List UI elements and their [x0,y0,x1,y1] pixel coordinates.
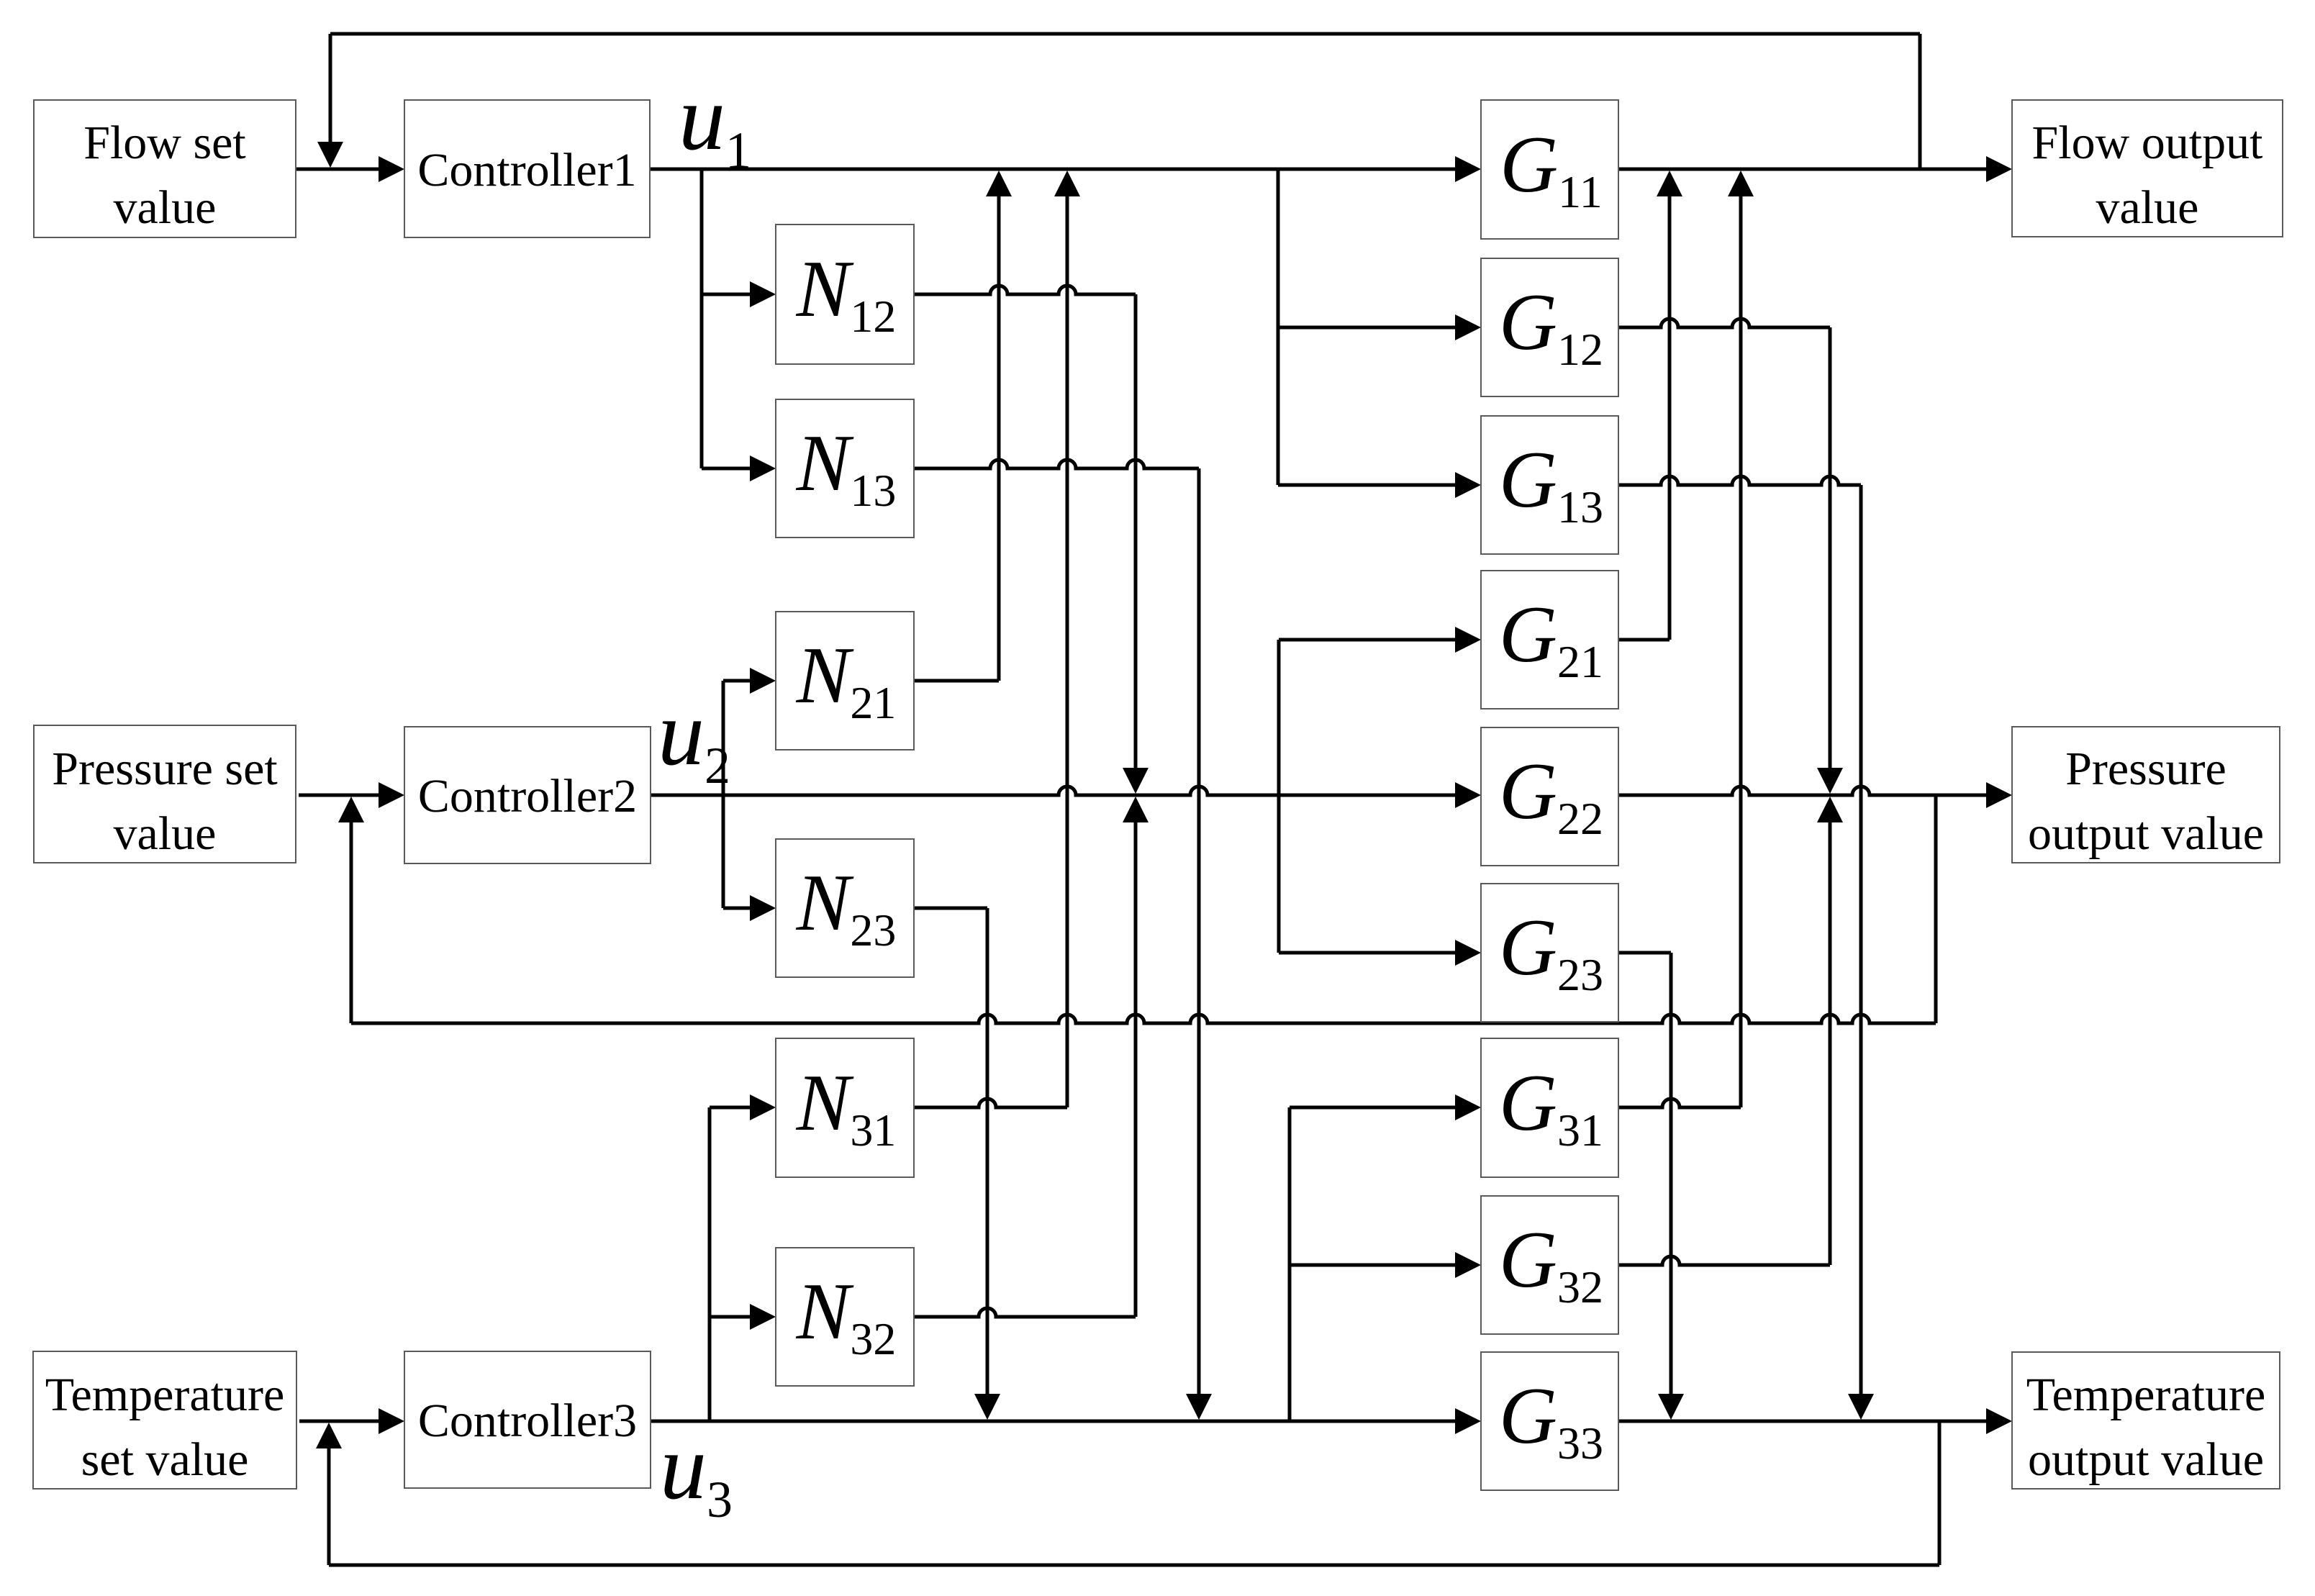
block plant G12 [1481,258,1618,396]
svg-text:value: value [114,807,217,860]
arrowhead into N12 [750,281,776,307]
wire flow feedback top line [330,32,1920,36]
wire N23 output drop [986,908,989,1413]
arrowhead flow feedback onto input line [317,142,343,168]
arrowhead into G13 [1455,472,1481,498]
arrowhead into N13 [750,455,776,481]
wire G21 output riser [1668,178,1672,640]
arrowhead into N32 [750,1304,776,1330]
wire pressure set value to Controller2 [299,794,380,797]
arrowhead G23 output onto temperature output line [1658,1394,1684,1420]
block Pressure set value [34,725,296,863]
wire flow feedback drop at input [329,34,332,162]
arrowhead temperature feedback onto input line [316,1423,342,1448]
wire temperature set value to Controller3 [299,1420,380,1423]
wire u2 branch to N23 [723,907,751,910]
wire u3 plant feed up [1288,1107,1292,1421]
arrowhead into N21 [750,668,776,694]
block Pressure output value [2012,727,2280,863]
arrowhead into G12 [1455,314,1481,340]
block plant G13 [1481,416,1618,554]
wire N32 output [914,1308,1136,1317]
block plant G11 [1481,100,1618,239]
svg-text:Temperature: Temperature [2026,1369,2266,1421]
arrowhead N21 output onto u1 line [986,171,1012,196]
block decoupler N12 [776,225,914,364]
arrowhead into N23 [750,895,776,921]
wire u1 feed to G12 [1278,326,1456,330]
arrowhead N13 output onto u3 line [1186,1394,1212,1420]
block Controller2 [404,727,651,863]
block plant G23 [1481,884,1618,1022]
block decoupler N31 [776,1038,914,1177]
svg-text:Flow set: Flow set [83,117,246,169]
wire pressure feedback bottom line [351,1015,1936,1023]
block Controller1 [404,100,650,237]
arrowhead N12 output onto u2 line [1123,768,1149,794]
arrowhead into G22 [1455,782,1481,808]
arrowhead G21 output onto flow output line [1657,171,1682,196]
wire N13 output [914,460,1199,468]
block decoupler N21 [776,612,914,750]
svg-text:Controller2: Controller2 [418,770,637,822]
wire u2 branch to N21 [723,679,751,683]
wire G32 output riser [1829,804,1832,1265]
wire u3 feed to G31 [1290,1106,1456,1110]
arrowhead into Pressure output value [1986,782,2012,808]
wire G23 output [1618,951,1671,955]
block plant G31 [1481,1038,1618,1177]
arrowhead N31 output onto u1 line [1054,171,1080,196]
block plant G22 [1481,727,1618,866]
wire G22 output to Pressure output value [1618,786,1988,795]
wire u3 branch to N32 [710,1315,751,1319]
arrowhead into G32 [1455,1252,1481,1278]
wire u2 line Controller2 to G22 [651,786,1456,795]
arrowhead G31 output onto flow output line [1728,171,1754,196]
wire G23 output drop [1670,953,1673,1413]
block decoupler N23 [776,839,914,977]
block plant G33 [1481,1352,1618,1490]
arrowhead into N31 [750,1094,776,1120]
wire flow feedback riser at output junction [1918,34,1922,169]
wire N13 output drop [1197,468,1201,1413]
wire G33 output to Temperature output value [1618,1420,1988,1423]
wire u2 branch vertical [722,681,725,908]
wire u1 branch to N12 [702,293,751,296]
wire N12 output [914,286,1136,294]
wire temperature feedback bottom line [329,1564,1939,1567]
wire u3 branch to N31 [710,1106,751,1110]
block Temperature set value [33,1351,296,1489]
wire N23 output [914,907,987,910]
svg-text:Temperature: Temperature [45,1369,285,1421]
arrowhead into G11 [1455,156,1481,182]
wire pressure feedback drop at output junction [1934,795,1938,1023]
wire u3 feed to G32 [1290,1264,1456,1267]
svg-text:Pressure set: Pressure set [52,743,277,795]
arrowhead N23 output onto u3 line [974,1394,1000,1420]
wire G12 output [1618,319,1830,327]
arrowhead into G31 [1455,1094,1481,1120]
block plant G32 [1481,1196,1618,1334]
arrowhead into Flow output value [1986,156,2012,182]
wire temperature feedback drop at output junction [1938,1421,1942,1565]
svg-text:Controller3: Controller3 [418,1395,637,1447]
wire u2 feed to G21 [1279,638,1456,642]
arrowhead into Controller1 [379,156,404,182]
svg-text:output value: output value [2028,1433,2264,1486]
wire G31 output riser [1739,178,1743,1107]
wire N21 output riser [997,178,1001,681]
svg-text:Controller1: Controller1 [417,144,636,196]
arrowhead into Controller2 [379,782,404,808]
wire G31 output [1618,1099,1741,1107]
block Flow set value [34,100,296,237]
wire G21 output [1618,638,1670,642]
svg-text:set value: set value [81,1433,249,1486]
svg-text:Flow output: Flow output [2032,117,2263,169]
wire pressure feedback riser at input [350,802,353,1023]
arrowhead into Temperature output value [1986,1408,2012,1434]
arrowhead G32 output onto pressure output line [1817,797,1843,822]
wire u3 branch up [708,1107,712,1421]
wire u1 plant feed down [1277,169,1280,485]
svg-text:Pressure: Pressure [2065,743,2226,795]
wire N12 output drop [1134,294,1138,786]
wire G12 output drop [1829,327,1832,786]
arrowhead into Controller3 [379,1408,404,1434]
wire u1 branch to N13 [702,467,751,471]
wire N31 output [914,1099,1067,1107]
svg-text:output value: output value [2028,807,2264,860]
arrowhead into G23 [1455,940,1481,966]
wire u1 branch down [700,169,704,468]
block decoupler N32 [776,1248,914,1386]
block Controller3 [404,1351,651,1488]
svg-text:value: value [114,181,217,234]
wire u1 line Controller1 to G11 [650,168,1456,171]
block Flow output value [2012,100,2283,237]
arrowhead into G33 [1455,1408,1481,1434]
wire flow set value to Controller1 [296,168,380,171]
wire N21 output [914,679,999,683]
block decoupler N13 [776,399,914,538]
wire N32 output riser [1134,804,1138,1317]
arrowhead pressure feedback onto input line [338,797,364,822]
wire G32 output [1618,1256,1830,1265]
wire u2 plant feed vertical [1277,640,1281,953]
svg-text:value: value [2096,181,2199,234]
wire G13 output [1618,476,1861,485]
wire G13 output drop [1859,485,1863,1413]
wire temperature feedback riser at input [327,1428,331,1565]
block Temperature output value [2012,1352,2280,1489]
wire u1 feed to G13 [1278,484,1456,487]
arrowhead into G21 [1455,627,1481,653]
arrowhead G12 output onto pressure output line [1817,768,1843,794]
arrowhead G13 output onto temperature output line [1848,1394,1874,1420]
wire u2 feed to G23 [1279,951,1456,955]
block plant G21 [1481,571,1618,709]
wire G11 output to Flow output value [1618,168,1988,171]
arrowhead N32 output onto u2 line [1123,797,1149,822]
wire u3 line Controller3 to G33 [650,1420,1456,1423]
wire N31 output riser [1066,178,1069,1107]
